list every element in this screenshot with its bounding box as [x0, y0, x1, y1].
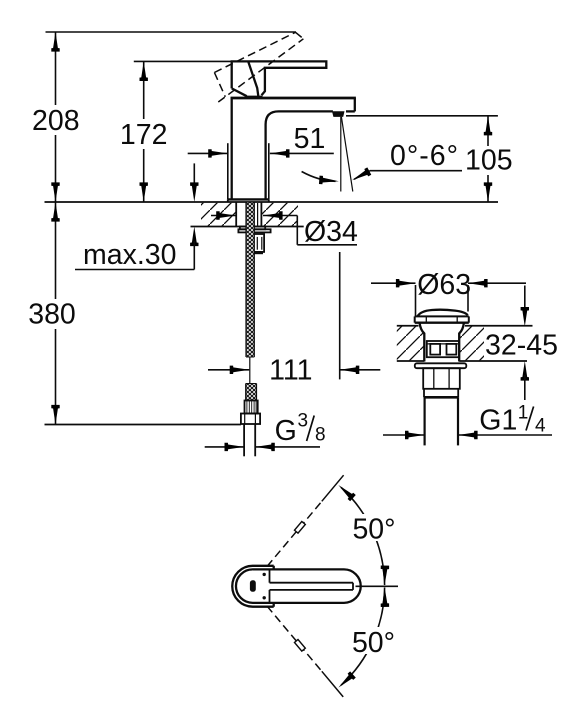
dimension 51 extension lines	[227, 143, 229, 199]
hose crimp sleeve	[245, 401, 258, 414]
deck bottom line	[191, 226, 304, 228]
50 deg text lower	[348, 627, 398, 654]
mounting hole edges	[235, 203, 237, 227]
G3/8 threaded pipe	[243, 424, 245, 456]
svg-text:G1: G1	[479, 404, 517, 436]
dimension diam63 extension lines	[415, 285, 417, 316]
lever slot	[270, 582, 354, 584]
second hose line	[257, 203, 259, 226]
dimension 51 line	[188, 152, 228, 154]
lever left end edges	[269, 569, 271, 582]
50 deg text upper	[349, 514, 399, 541]
handle lever outline	[236, 569, 361, 603]
angle arc 0-6	[302, 172, 336, 182]
drain overflow window	[427, 341, 459, 357]
hose end reference line	[45, 424, 241, 426]
aerator	[332, 111, 345, 117]
svg-text:8: 8	[315, 425, 326, 446]
spout underside right	[346, 110, 355, 112]
base plate	[228, 198, 269, 200]
drain locknut	[423, 368, 460, 389]
break mark upper	[294, 521, 305, 533]
svg-text:1: 1	[518, 403, 529, 424]
water stream tilted 6deg	[341, 117, 352, 192]
dimension 172 line	[143, 61, 145, 119]
centerline	[356, 585, 399, 587]
angle leader 0-6	[370, 170, 462, 172]
svg-text:51: 51	[294, 123, 326, 155]
swing arc lower	[341, 588, 385, 686]
svg-text:Ø63: Ø63	[417, 269, 471, 301]
deck hatching right	[261, 203, 298, 226]
drain tailpipe	[424, 397, 426, 445]
diam34 label box	[296, 216, 298, 245]
dimension 111 aerator axis leader	[339, 252, 341, 379]
spout underside and inner curve	[266, 111, 333, 199]
counter deck reference line	[45, 201, 499, 203]
dimension diam63 line	[371, 282, 416, 284]
dimension 208 line	[55, 32, 57, 105]
drain cap rim	[415, 315, 469, 317]
handle base bottom edge	[232, 88, 247, 96]
dimension 380 line	[55, 202, 57, 299]
swing arc upper	[341, 487, 385, 585]
svg-text:32-45: 32-45	[485, 330, 558, 362]
svg-text:50°: 50°	[352, 627, 395, 659]
svg-text:G: G	[275, 415, 297, 447]
faucet handle lever (solid)	[232, 61, 327, 95]
flexible hose braided upper	[246, 203, 254, 358]
svg-text:172: 172	[120, 119, 168, 151]
svg-text:0°-6°: 0°-6°	[390, 140, 459, 172]
svg-text:380: 380	[28, 299, 76, 331]
svg-text:105: 105	[465, 145, 513, 177]
svg-text:max.30: max.30	[83, 239, 176, 271]
dimension 111 arrows	[208, 369, 249, 371]
drain deck top line	[397, 325, 419, 327]
dimension 172 extension line	[134, 60, 232, 62]
handle marking blob	[250, 580, 256, 592]
water stream vertical 0deg	[340, 117, 342, 192]
svg-text:Ø34: Ø34	[304, 216, 358, 248]
drain cap dome	[418, 310, 468, 317]
dimension 32-45 arrows	[524, 286, 526, 313]
swing ray upper (dashed)	[267, 501, 322, 566]
spout right end face	[354, 98, 356, 111]
svg-text:50°: 50°	[352, 514, 395, 546]
fixing stud and nut	[254, 234, 265, 252]
mounting flange under deck	[240, 227, 265, 230]
dimension G3/8 arrows	[205, 446, 244, 448]
dimension 105 line	[487, 116, 489, 146]
dimension 105 extension line	[346, 115, 498, 117]
svg-text:3: 3	[298, 411, 309, 432]
drain body taper right	[459, 323, 464, 362]
drain nut lower band	[423, 389, 425, 398]
max.30 label	[75, 269, 194, 271]
hose break line	[249, 357, 251, 384]
deck hatching left	[201, 203, 236, 226]
handle screw dots	[263, 573, 266, 576]
break mark lower	[294, 639, 305, 651]
faucet body left edge	[231, 98, 233, 200]
dimension G1 1/4 arrows	[383, 434, 425, 436]
svg-text:111: 111	[269, 355, 312, 387]
flexible hose braided lower	[246, 384, 257, 401]
faucet top line	[231, 97, 356, 100]
swing ray lower (dashed)	[267, 606, 322, 671]
handle raised position (dashed)	[214, 32, 295, 72]
handle knob outer outline	[232, 566, 273, 607]
drain deck bottom line	[397, 360, 425, 362]
drain flange washer	[415, 363, 467, 368]
drain body taper left	[420, 323, 425, 362]
dimension diam34 arrows	[211, 215, 236, 217]
svg-text:4: 4	[535, 416, 546, 437]
hose hex nut	[241, 414, 260, 425]
drain deck hatching	[397, 326, 424, 360]
svg-text:208: 208	[32, 105, 80, 137]
handle front edge	[248, 62, 258, 96]
top height reference line	[46, 31, 297, 33]
handle seat line	[246, 96, 263, 99]
max.30 arrows	[193, 163, 195, 188]
